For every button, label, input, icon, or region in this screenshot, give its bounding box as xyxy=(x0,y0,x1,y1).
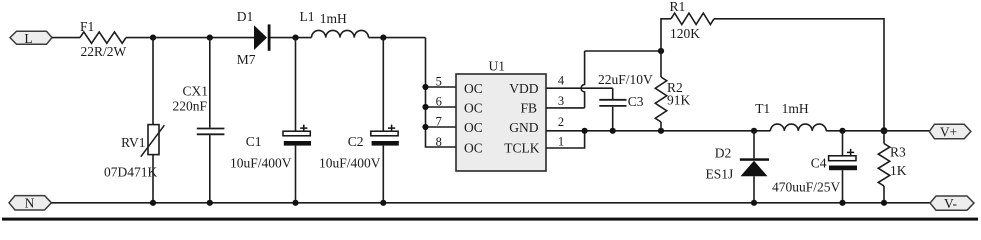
varistor RV1 xyxy=(104,38,164,203)
svg-text:OC: OC xyxy=(464,120,483,135)
svg-text:N: N xyxy=(25,196,35,211)
svg-text:R1: R1 xyxy=(670,0,686,14)
svg-text:10uF/400V: 10uF/400V xyxy=(230,156,292,171)
wire R1 to right vertical xyxy=(714,19,884,131)
svg-text:07D471K: 07D471K xyxy=(104,165,157,180)
node C2 top xyxy=(380,35,386,41)
svg-text:4: 4 xyxy=(558,74,565,88)
node D2/T1 xyxy=(751,128,757,134)
svg-text:1mH: 1mH xyxy=(782,101,809,116)
svg-text:R3: R3 xyxy=(890,145,906,160)
svg-text:3: 3 xyxy=(558,94,564,108)
wire bottom rail N to V- xyxy=(51,202,930,204)
svg-text:CX1: CX1 xyxy=(182,84,208,99)
node C4 bottom xyxy=(839,200,845,206)
svg-text:7: 7 xyxy=(436,115,442,129)
svg-text:C3: C3 xyxy=(628,94,644,109)
wire FB vertical with hop over pin4 wire xyxy=(581,51,584,108)
wire L to F1 xyxy=(52,37,80,39)
svg-text:M7: M7 xyxy=(237,52,256,67)
terminal N xyxy=(9,196,51,211)
wire L1 to bus corner xyxy=(369,37,426,39)
wire pin6 stub xyxy=(426,106,457,108)
node D2 bottom xyxy=(751,200,757,206)
terminal L xyxy=(10,31,52,46)
svg-text:10uF/400V: 10uF/400V xyxy=(319,156,381,171)
wire F1 to D1 xyxy=(126,37,254,39)
wire D1 to L1 xyxy=(271,37,312,39)
wire pin7 stub xyxy=(426,126,457,128)
resistor F1 xyxy=(80,19,127,59)
wire FB top to R1/R2 junction xyxy=(585,50,661,52)
node bus pin6 xyxy=(422,104,428,110)
svg-text:5: 5 xyxy=(436,75,442,89)
inductor L1 xyxy=(300,9,369,38)
wire GND rail from pin2 xyxy=(546,130,770,132)
svg-text:470uuF/25V: 470uuF/25V xyxy=(772,180,841,195)
svg-text:OC: OC xyxy=(464,101,483,116)
svg-text:1mH: 1mH xyxy=(320,11,347,26)
wire pin3 stub xyxy=(546,107,585,109)
op-amp U1 xyxy=(436,59,565,172)
diode D2 xyxy=(706,131,770,203)
node C1 bottom xyxy=(292,200,298,206)
svg-text:T1: T1 xyxy=(755,101,770,116)
node RV1 bottom xyxy=(150,200,156,206)
svg-text:D1: D1 xyxy=(237,9,254,24)
capacitor C2 xyxy=(319,38,399,203)
node C3 bottom xyxy=(610,128,616,134)
resistor R3 xyxy=(878,131,906,203)
svg-text:2: 2 xyxy=(558,115,564,129)
svg-text:22uF/10V: 22uF/10V xyxy=(598,72,653,87)
svg-text:1K: 1K xyxy=(890,163,907,178)
svg-text:VDD: VDD xyxy=(509,81,538,96)
svg-text:TCLK: TCLK xyxy=(504,141,539,156)
node V+ rail main junction xyxy=(881,127,888,134)
node bus pin7 xyxy=(422,124,428,130)
svg-text:L: L xyxy=(24,31,32,46)
wire pin4 stub to C3 xyxy=(546,87,613,89)
svg-text:GND: GND xyxy=(509,120,538,135)
wire pin5 stub xyxy=(426,86,457,88)
capacitor C1 xyxy=(230,38,311,203)
node CX1 top xyxy=(207,35,213,41)
node R1/R2 junction xyxy=(658,48,664,54)
svg-text:V-: V- xyxy=(944,196,958,211)
node R3 bottom xyxy=(881,200,887,206)
node C4 top xyxy=(839,128,845,134)
node bus pin5 xyxy=(422,84,428,90)
capacitor C4 xyxy=(772,131,857,203)
svg-text:RV1: RV1 xyxy=(121,135,145,150)
svg-text:C4: C4 xyxy=(811,156,827,171)
wire T1 to V+ xyxy=(826,130,929,132)
node R2 bottom xyxy=(658,128,664,134)
inductor T1 xyxy=(755,101,826,131)
svg-text:C1: C1 xyxy=(246,134,262,149)
svg-text:120K: 120K xyxy=(670,26,700,41)
svg-text:ES1J: ES1J xyxy=(706,167,734,182)
diode D1 xyxy=(237,9,271,67)
svg-text:U1: U1 xyxy=(489,59,506,74)
svg-text:D2: D2 xyxy=(715,146,732,161)
svg-text:F1: F1 xyxy=(80,19,94,34)
wire pin1 stub up to GND rail xyxy=(546,131,585,148)
svg-text:L1: L1 xyxy=(300,9,315,24)
bottom border rule xyxy=(2,218,978,221)
svg-text:FB: FB xyxy=(520,101,537,116)
svg-text:220nF: 220nF xyxy=(172,99,207,114)
svg-text:OC: OC xyxy=(464,81,483,96)
svg-text:8: 8 xyxy=(436,135,442,149)
terminal V- xyxy=(930,196,974,211)
node C1 top xyxy=(292,35,298,41)
resistor R1 xyxy=(661,0,714,51)
resistor R2 xyxy=(655,51,690,131)
capacitor CX1 xyxy=(172,38,224,203)
svg-text:V+: V+ xyxy=(940,124,957,139)
svg-text:OC: OC xyxy=(464,141,483,156)
node RV1 top xyxy=(150,35,156,41)
node pin1 to rail xyxy=(582,128,588,134)
svg-text:91K: 91K xyxy=(667,92,691,107)
wire input bus vertical xyxy=(426,38,457,147)
capacitor C3 xyxy=(598,72,653,131)
terminal V+ xyxy=(929,124,971,139)
svg-text:6: 6 xyxy=(436,95,442,109)
svg-text:1: 1 xyxy=(558,135,564,149)
svg-text:C2: C2 xyxy=(348,134,364,149)
svg-text:22R/2W: 22R/2W xyxy=(81,44,127,59)
node CX1 bottom xyxy=(207,200,213,206)
node C2 bottom xyxy=(380,200,386,206)
